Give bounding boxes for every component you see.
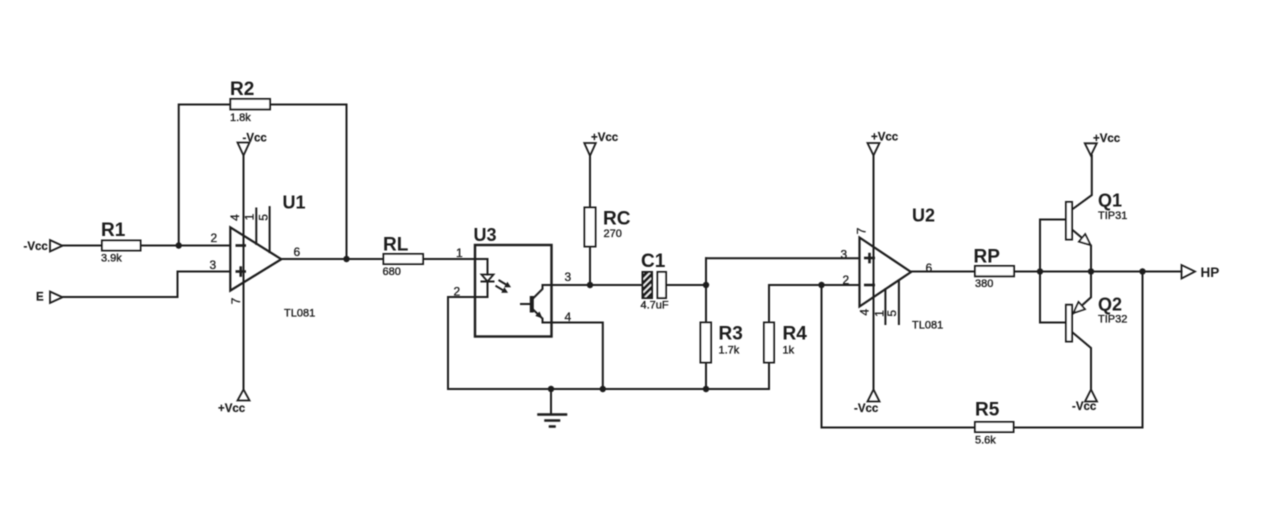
svg-text:6: 6 — [294, 245, 301, 259]
svg-text:R3: R3 — [719, 324, 743, 345]
svg-text:2: 2 — [843, 273, 850, 287]
svg-text:2: 2 — [454, 285, 461, 299]
svg-text:1k: 1k — [783, 345, 795, 357]
svg-text:Q2: Q2 — [1098, 295, 1122, 315]
svg-text:7: 7 — [229, 297, 243, 304]
svg-text:+Vcc: +Vcc — [218, 403, 246, 415]
svg-text:RC: RC — [603, 209, 631, 230]
svg-text:R2: R2 — [230, 79, 254, 100]
svg-text:3.9k: 3.9k — [101, 253, 122, 265]
svg-text:TIP32: TIP32 — [1098, 314, 1127, 326]
svg-text:TIP31: TIP31 — [1098, 210, 1127, 222]
svg-text:-Vcc: -Vcc — [854, 403, 879, 415]
svg-text:U1: U1 — [283, 193, 306, 213]
svg-text:6: 6 — [926, 261, 933, 275]
svg-text:270: 270 — [604, 228, 622, 240]
svg-text:2: 2 — [211, 231, 218, 245]
svg-text:-Vcc: -Vcc — [24, 241, 49, 253]
svg-text:4: 4 — [565, 310, 572, 324]
svg-text:U2: U2 — [912, 206, 935, 226]
svg-text:3: 3 — [841, 248, 848, 262]
svg-text:TL081: TL081 — [912, 320, 943, 332]
svg-text:5.6k: 5.6k — [975, 435, 996, 447]
svg-text:3: 3 — [565, 270, 572, 284]
svg-text:TL081: TL081 — [284, 308, 315, 320]
svg-text:680: 680 — [383, 266, 401, 278]
svg-text:R5: R5 — [975, 400, 1000, 421]
svg-text:HP: HP — [1201, 265, 1220, 280]
svg-text:RL: RL — [383, 235, 409, 256]
svg-text:R1: R1 — [101, 220, 126, 241]
svg-text:1.7k: 1.7k — [719, 345, 740, 357]
svg-text:+Vcc: +Vcc — [871, 132, 899, 144]
svg-text:+Vcc: +Vcc — [591, 132, 619, 144]
svg-text:Q1: Q1 — [1098, 191, 1122, 211]
svg-text:7: 7 — [855, 227, 869, 234]
svg-text:C1: C1 — [641, 251, 666, 272]
svg-text:1.8k: 1.8k — [230, 112, 251, 124]
svg-text:-Vcc: -Vcc — [1072, 401, 1097, 413]
svg-text:R4: R4 — [783, 324, 808, 345]
svg-text:+Vcc: +Vcc — [1093, 133, 1121, 145]
svg-text:1: 1 — [456, 246, 463, 260]
svg-text:-Vcc: -Vcc — [243, 133, 268, 145]
svg-text:E: E — [36, 292, 44, 304]
svg-text:4: 4 — [858, 309, 872, 316]
svg-text:4: 4 — [228, 214, 242, 221]
svg-text:1: 1 — [243, 213, 257, 220]
svg-text:5: 5 — [885, 310, 899, 317]
svg-text:4.7uF: 4.7uF — [641, 300, 669, 312]
svg-text:380: 380 — [975, 278, 993, 290]
svg-text:5: 5 — [257, 214, 271, 221]
svg-text:RP: RP — [974, 247, 1001, 268]
svg-text:U3: U3 — [474, 225, 497, 245]
svg-text:3: 3 — [210, 258, 217, 272]
